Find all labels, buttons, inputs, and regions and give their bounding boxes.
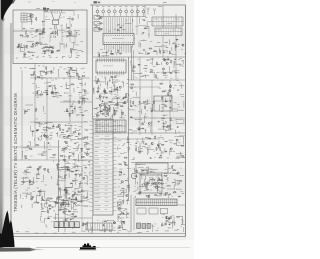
degauss cluster	[81, 222, 92, 233]
AGC dense cluster	[32, 82, 62, 98]
connector row CN601	[54, 222, 80, 228]
wire vertical x70	[69, 72, 71, 122]
wire horizontal y87 right	[129, 86, 160, 88]
wire horizontal y102 left	[60, 101, 92, 103]
right of IC parts	[133, 38, 186, 55]
inset upper parts	[30, 15, 50, 25]
wire horizontal y139 right	[100, 138, 160, 140]
bottom-center scanner blob	[79, 243, 97, 250]
audio cluster right	[59, 138, 91, 162]
wire vertical x131 lower	[130, 195, 132, 232]
jungle IC right column	[56, 162, 90, 211]
jungle IC U601 (tall)	[84, 119, 122, 215]
connector block (inset top)	[36, 8, 49, 12]
wire horizontal y160 left	[12, 159, 92, 161]
sync cluster	[161, 56, 184, 81]
tables-IC gap parts	[135, 16, 151, 36]
CRT drive cluster	[159, 83, 184, 112]
mid column lower cluster	[118, 136, 132, 230]
wire horizontal y78 left	[30, 77, 90, 79]
schematic outer border frame	[11, 5, 186, 237]
wire vertical x58	[58, 140, 60, 232]
wire vertical x137 top	[136, 5, 138, 35]
wire vertical x163	[162, 5, 164, 57]
bottom mid upper cluster	[117, 196, 129, 218]
wire horizontal y118 right	[130, 117, 185, 119]
wire inset h y12	[44, 11, 51, 13]
top margin stray marks	[28, 1, 76, 3]
chroma IC U201	[96, 58, 126, 76]
connector table J2	[155, 28, 182, 36]
top-left scanner blob	[1, 0, 16, 22]
comb overlay parts	[109, 19, 133, 32]
bridge rectifier blocks	[137, 223, 151, 229]
wire vertical x47	[46, 78, 48, 160]
wire inset v x44	[43, 12, 45, 35]
AV input connector stack	[96, 18, 103, 30]
wire inset v x22	[21, 22, 23, 31]
connector table J1	[152, 17, 183, 26]
power dense cluster	[40, 196, 78, 229]
wire vertical x82	[81, 78, 83, 230]
AFT cluster	[63, 95, 88, 117]
wire vertical x131.5 upper	[131, 46, 133, 80]
connector row CN602	[86, 223, 112, 230]
wire vertical divider x128	[128, 57, 130, 200]
wire horizontal y133 right	[93, 132, 185, 134]
label text row under inset	[20, 65, 45, 69]
wire vertical x176	[175, 14, 177, 80]
sheet label text top	[94, 1, 101, 3]
bottom-left scanner blob	[0, 211, 45, 252]
wire horizontal y57 right	[93, 56, 185, 58]
inset upper right parts	[60, 13, 78, 29]
IF input cluster	[30, 66, 85, 80]
paper background	[0, 0, 194, 259]
wire vertical x35	[34, 63, 36, 147]
wire vertical x133.5 upper	[133, 50, 135, 80]
inset inter-row wires	[40, 16, 75, 50]
IF IC U101	[103, 34, 134, 55]
schematic title text (rotated)	[13, 93, 18, 212]
power module cluster	[133, 164, 184, 198]
page bottom edge shadow line	[36, 246, 190, 248]
inset caption text row	[16, 56, 78, 59]
wire horizontal y147 left	[12, 146, 58, 148]
wire vertical x22	[21, 70, 23, 160]
mid bus component row	[31, 122, 88, 141]
horiz output cluster	[131, 135, 185, 160]
IC U1 pin grid (inset)	[21, 13, 27, 22]
wire bus under transistor row	[96, 16, 144, 18]
AFT upper cluster	[64, 82, 89, 95]
tuner volt cluster	[23, 105, 45, 119]
power module boxes	[131, 163, 168, 193]
scan mottle (decor)	[13, 6, 188, 238]
power module inner parts	[141, 177, 160, 188]
chroma cluster A	[93, 75, 130, 118]
wire vertical x149 top	[148, 26, 150, 38]
chroma cluster B	[130, 58, 160, 79]
wire horizontal y122 left	[30, 121, 88, 123]
wire horizontal y205 right	[135, 204, 185, 206]
wire horizontal y80 right	[129, 79, 185, 81]
RCA jack stack J101	[94, 16, 102, 32]
RGB out upper cluster	[130, 84, 141, 98]
wire vertical x65 lower	[64, 160, 66, 232]
flyback transformer T601	[136, 199, 177, 214]
connector row CN201	[96, 120, 126, 132]
bottom caption text row	[16, 230, 178, 234]
inset bottom component row	[16, 41, 83, 58]
wire vertical x134 lower	[133, 197, 135, 230]
wire vertical x152	[151, 80, 153, 135]
jungle IC area	[21, 166, 54, 208]
bottom mid cluster	[97, 218, 126, 233]
mid row cluster right	[129, 115, 184, 134]
regulator module box	[154, 96, 172, 111]
audio cluster left	[22, 142, 56, 163]
power supply bottom right cluster	[152, 215, 185, 233]
scan streak bands (decor)	[4, 28, 186, 196]
U1 pin labels (inset)	[27, 13, 33, 22]
svg-text:TR583B/A (TELER) TV B5XTC SCHE: TR583B/A (TELER) TV B5XTC SCHEMATIC DIAG…	[13, 93, 18, 212]
inset sub-schematic border	[13, 10, 87, 64]
transistor row Q101-Q109	[96, 6, 145, 16]
deflection yoke symbol (inset)	[51, 10, 75, 29]
antenna input symbols	[147, 2, 167, 15]
wire horizontal y162.5 right	[131, 162, 185, 164]
wire vertical x170	[169, 80, 171, 130]
wire inset h y31	[13, 30, 44, 32]
wire vertical x140	[139, 57, 141, 135]
wire vertical x145 top	[144, 5, 146, 17]
left scan edge strip	[0, 0, 4, 248]
wire horizontal y218 left	[54, 217, 92, 219]
RGB out cluster	[129, 98, 154, 115]
wire vertical bus x92	[92, 5, 94, 232]
inset mid component row	[19, 28, 80, 38]
video detector cluster	[98, 47, 122, 57]
wire comb to IC pins	[104, 17, 133, 33]
